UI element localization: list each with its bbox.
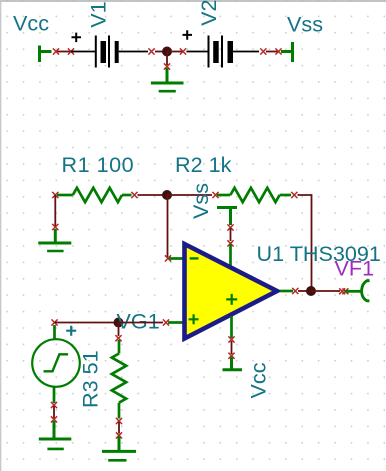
svg-text:VG1: VG1 <box>117 309 160 334</box>
pin cross X <box>116 418 122 424</box>
pin cross X <box>68 48 74 54</box>
wire op-amp V+ to Vcc terminal <box>231 341 233 354</box>
ground (under R1) <box>38 229 71 251</box>
ground (under R3) <box>102 436 136 460</box>
wire node to VF1 probe <box>311 290 340 292</box>
pin cross X <box>260 48 266 54</box>
op-amp inverting input pin <box>169 257 184 260</box>
Vss supply terminal (op-amp V-) <box>217 208 237 226</box>
pin cross X <box>342 288 348 294</box>
wire R1 left to ground <box>54 195 56 226</box>
svg-text:V2: V2 <box>196 0 221 26</box>
battery V2 plus sign <box>183 30 193 40</box>
pin cross X <box>291 192 297 198</box>
op-amp V+ supply pin <box>230 316 233 338</box>
svg-text:Vcc: Vcc <box>13 11 49 36</box>
pin cross X <box>116 432 122 438</box>
pin cross X <box>180 48 186 54</box>
pin cross X <box>339 288 345 294</box>
wire V1 to node <box>155 51 167 53</box>
battery V1 plus sign <box>72 33 82 43</box>
wire R1 to node <box>138 194 168 196</box>
wire VG1 to node <box>55 322 119 324</box>
pin cross X <box>212 192 218 198</box>
wire Vcc terminal to V1 <box>56 51 71 53</box>
op-amp output pin <box>280 290 293 293</box>
svg-text:Vss: Vss <box>287 12 323 37</box>
wire Vss terminal to op-amp supply pin <box>230 228 232 241</box>
op-amp U1 triangle <box>185 244 278 339</box>
op-amp noninverting input pin <box>168 321 184 324</box>
pin cross X <box>52 224 58 230</box>
op-amp plus marker (input) <box>189 314 199 324</box>
op-amp minus marker <box>190 257 199 259</box>
junction node top <box>162 47 172 57</box>
pin cross X <box>51 416 57 422</box>
svg-text:R3 51: R3 51 <box>77 350 102 408</box>
voltage probe VF1 <box>345 281 370 301</box>
pin cross X <box>165 255 171 261</box>
pin cross X <box>52 192 58 198</box>
svg-text:R1 100: R1 100 <box>62 152 135 177</box>
wire node to V2 <box>167 51 183 53</box>
svg-text:V1: V1 <box>86 1 111 27</box>
junction node VG1/R3 <box>114 318 124 328</box>
wire output pin to node <box>298 290 311 292</box>
pin cross X <box>51 402 57 408</box>
resistor R3 <box>112 340 126 419</box>
junction node output <box>306 286 316 296</box>
svg-text:VF1: VF1 <box>335 256 375 281</box>
wire node to inverting input <box>167 195 169 257</box>
pin cross X <box>292 288 298 294</box>
wire R3 to ground <box>118 422 120 434</box>
Vcc supply terminal (op-amp V+) <box>223 357 243 370</box>
pin cross X <box>163 319 169 325</box>
resistor R1 <box>57 188 132 202</box>
pin cross X <box>275 48 281 54</box>
op-amp plus marker (center) <box>226 294 237 305</box>
svg-text:Vss: Vss <box>188 183 213 219</box>
pin cross X <box>228 353 234 359</box>
Vcc jumper terminal (top left) <box>40 46 52 63</box>
wire node to noninverting input <box>119 322 164 324</box>
pin cross X <box>51 319 57 325</box>
wire node to R3 <box>118 323 120 337</box>
voltage generator VG1 <box>32 325 80 387</box>
resistor R2 <box>217 188 291 202</box>
pin cross X <box>131 192 137 198</box>
wire VG1 to ground <box>53 406 55 418</box>
pin cross X <box>53 48 59 54</box>
Vss jumper terminal (top right) <box>281 42 293 62</box>
svg-text:Vcc: Vcc <box>245 362 270 398</box>
pin cross X <box>148 48 154 54</box>
pin cross X <box>115 335 121 341</box>
pin cross X <box>227 224 233 230</box>
wire node to ground <box>166 52 168 66</box>
VG1 lower lead <box>53 387 56 403</box>
ground (under VG1) <box>39 421 72 449</box>
ground (top) <box>151 68 184 91</box>
wire node to R2 <box>167 194 212 196</box>
wire R2 to output node (feedback) <box>298 195 312 291</box>
pin cross X <box>164 63 170 69</box>
VG1 plus sign <box>66 326 76 336</box>
pin cross X <box>228 336 234 342</box>
battery V2 <box>187 36 260 68</box>
pin cross X <box>227 240 233 246</box>
junction node inverting <box>162 190 172 200</box>
op-amp V- supply pin <box>229 244 232 266</box>
svg-text:R2 1k: R2 1k <box>175 152 232 177</box>
battery V1 <box>71 36 148 68</box>
wire V2 to Vss terminal <box>266 51 279 53</box>
